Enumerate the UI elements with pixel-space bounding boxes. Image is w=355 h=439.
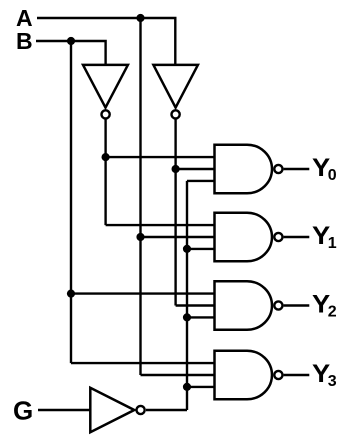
svg-text:G: G	[13, 395, 33, 425]
svg-text:1: 1	[328, 235, 337, 252]
svg-text:0: 0	[328, 167, 337, 184]
svg-text:3: 3	[328, 373, 337, 390]
svg-text:B: B	[16, 28, 33, 54]
svg-text:2: 2	[328, 304, 337, 321]
